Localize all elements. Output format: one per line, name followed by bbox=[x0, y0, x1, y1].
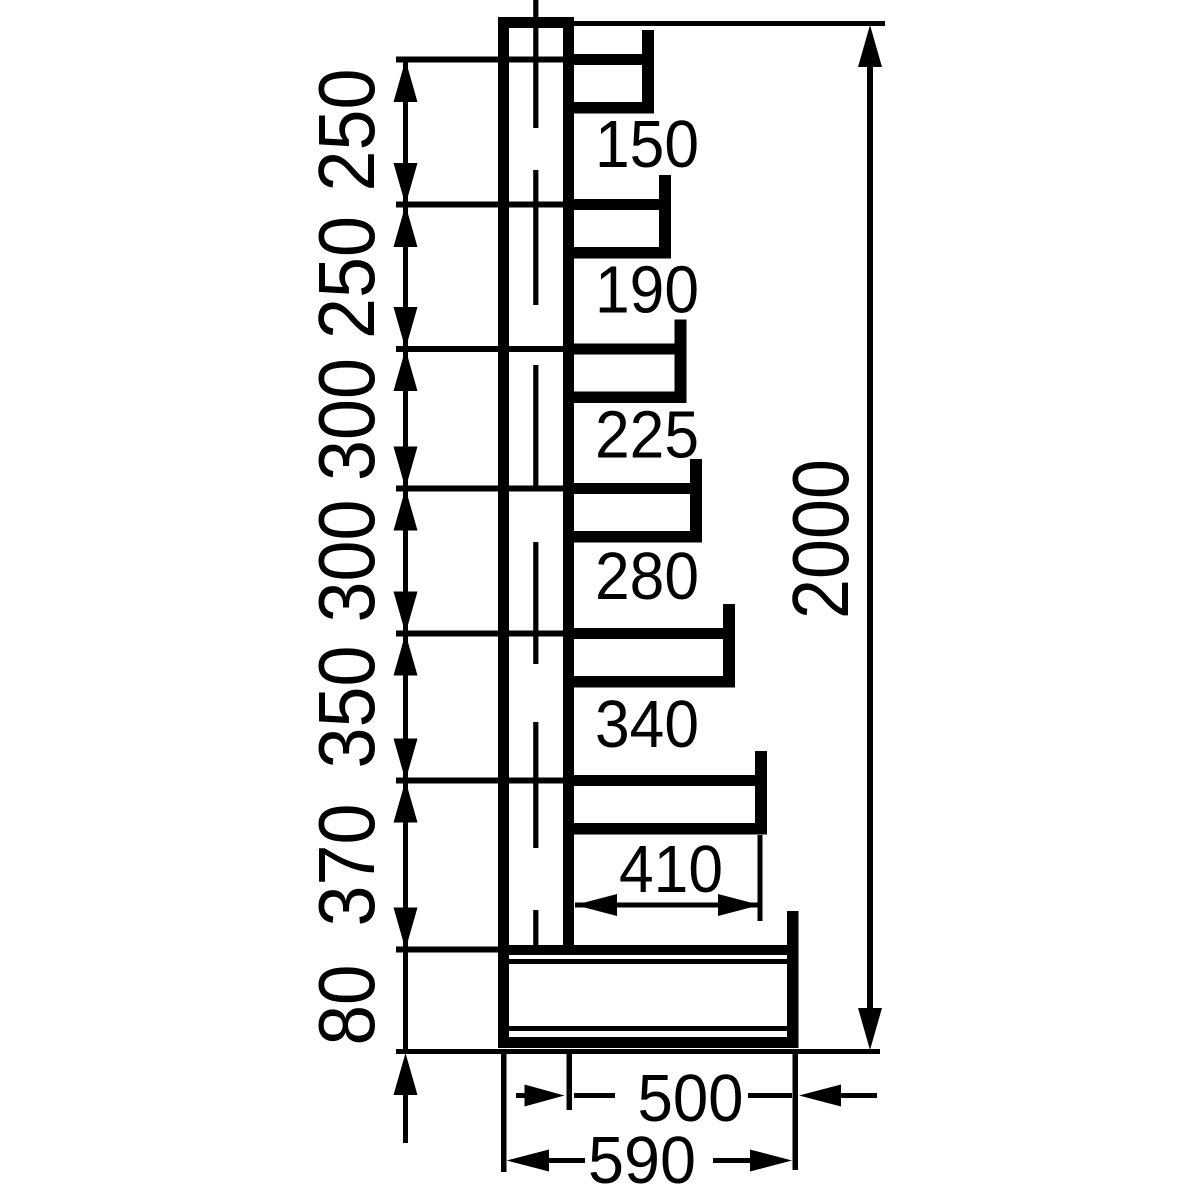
svg-text:590: 590 bbox=[588, 1123, 696, 1198]
base frame inner line lower bbox=[509, 1026, 788, 1031]
extension line level 6 bbox=[396, 778, 563, 784]
cantilever arm 3 top flange bbox=[563, 344, 687, 355]
extension line level 4 bbox=[396, 486, 563, 492]
ground line bbox=[396, 1049, 880, 1054]
590 dimension line left segment bbox=[549, 1158, 585, 1163]
500 outside arrow left bbox=[525, 1085, 565, 1107]
410 arrow left bbox=[575, 894, 617, 916]
upright post column left face bbox=[498, 17, 509, 1048]
left chain arrow pair at level 2 bbox=[394, 163, 418, 205]
extension line level 3 bbox=[396, 346, 563, 352]
cantilever arm 2 tip upstand bbox=[659, 175, 671, 259]
svg-text:280: 280 bbox=[595, 539, 699, 614]
base depth dimension 500 tail left bbox=[516, 1093, 526, 1098]
extension line level 2 bbox=[396, 202, 563, 208]
bottom extension line base end bbox=[793, 1054, 799, 1170]
svg-text:190: 190 bbox=[595, 253, 699, 328]
cantilever arm 3 tip upstand bbox=[675, 320, 687, 404]
500 dimension line right segment bbox=[748, 1093, 792, 1098]
500 outside arrow right bbox=[799, 1085, 841, 1107]
base frame bottom line bbox=[498, 1037, 798, 1048]
base end upstand bar bbox=[787, 911, 799, 1048]
svg-text:150: 150 bbox=[595, 107, 699, 182]
svg-text:300: 300 bbox=[302, 500, 391, 623]
svg-text:2000: 2000 bbox=[776, 459, 865, 619]
cantilever arm 5 tip upstand bbox=[723, 604, 735, 688]
upright post column right face bbox=[563, 17, 574, 945]
svg-text:80: 80 bbox=[302, 965, 391, 1046]
base frame inner line upper bbox=[509, 959, 788, 964]
left chain arrow down at base top bbox=[394, 908, 418, 950]
cantilever arm 6 tip upstand bbox=[755, 751, 767, 835]
left dimension chain line bbox=[403, 60, 408, 1052]
base frame top line bbox=[498, 945, 798, 955]
svg-text:250: 250 bbox=[302, 69, 391, 192]
cantilever arm 1 tip upstand bbox=[642, 30, 654, 114]
overall height extension line top bbox=[574, 21, 885, 26]
extension line level 1 bbox=[396, 57, 563, 63]
extension line base top level bbox=[396, 947, 563, 953]
590 arrow right bbox=[750, 1150, 792, 1172]
590 dimension line right segment bbox=[713, 1158, 752, 1163]
cantilever arm 2 top flange bbox=[563, 199, 671, 210]
svg-text:410: 410 bbox=[619, 832, 723, 907]
overall height dimension line 2000 bbox=[867, 60, 873, 1010]
410 arrow right bbox=[718, 894, 760, 916]
bottom extension line post right bbox=[567, 1054, 573, 1110]
500 tail right bbox=[841, 1093, 877, 1098]
extension line level 5 bbox=[396, 631, 563, 637]
post top cap bbox=[498, 17, 574, 28]
overall height arrow top bbox=[858, 25, 882, 67]
cantilever arm 1 bottom flange bbox=[563, 102, 654, 114]
cantilever arm 6 bottom flange bbox=[563, 823, 767, 835]
cantilever arm 4 tip upstand bbox=[690, 459, 702, 543]
cantilever arm 2 bottom flange bbox=[563, 247, 671, 259]
500 dimension line left segment bbox=[574, 1093, 615, 1098]
bottom extension line post left bbox=[501, 1054, 507, 1172]
overall height arrow bottom bbox=[858, 1008, 882, 1050]
cantilever arm 4 top flange bbox=[563, 483, 702, 494]
cantilever arm 3 bottom flange bbox=[563, 392, 687, 404]
cantilever arm 4 bottom flange bbox=[563, 531, 702, 543]
svg-text:250: 250 bbox=[302, 216, 391, 339]
cantilever arm 6 top flange bbox=[563, 775, 767, 786]
left chain arrow pair at level 3 bbox=[394, 307, 418, 349]
left chain arrow pair at level 4 bbox=[394, 447, 418, 489]
svg-text:340: 340 bbox=[595, 687, 699, 762]
left chain outside arrow below ground bbox=[394, 1053, 418, 1095]
svg-text:225: 225 bbox=[595, 398, 699, 473]
left chain arrow pair at level 6 bbox=[394, 739, 418, 781]
svg-text:300: 300 bbox=[302, 358, 391, 481]
left chain arrow up at level 1 bbox=[394, 60, 418, 102]
post center line (dashed) bbox=[533, 0, 538, 945]
cantilever arm 1 top flange bbox=[563, 54, 654, 65]
cantilever arm 5 top flange bbox=[563, 628, 735, 639]
svg-text:350: 350 bbox=[302, 646, 391, 769]
svg-text:370: 370 bbox=[302, 804, 391, 927]
arm depth dimension line 410 bbox=[575, 903, 760, 908]
590 arrow left bbox=[507, 1150, 549, 1172]
cantilever arm 5 bottom flange bbox=[563, 676, 735, 688]
arm 6 tip extension line down bbox=[758, 835, 763, 921]
left chain arrow pair at level 5 bbox=[394, 592, 418, 634]
